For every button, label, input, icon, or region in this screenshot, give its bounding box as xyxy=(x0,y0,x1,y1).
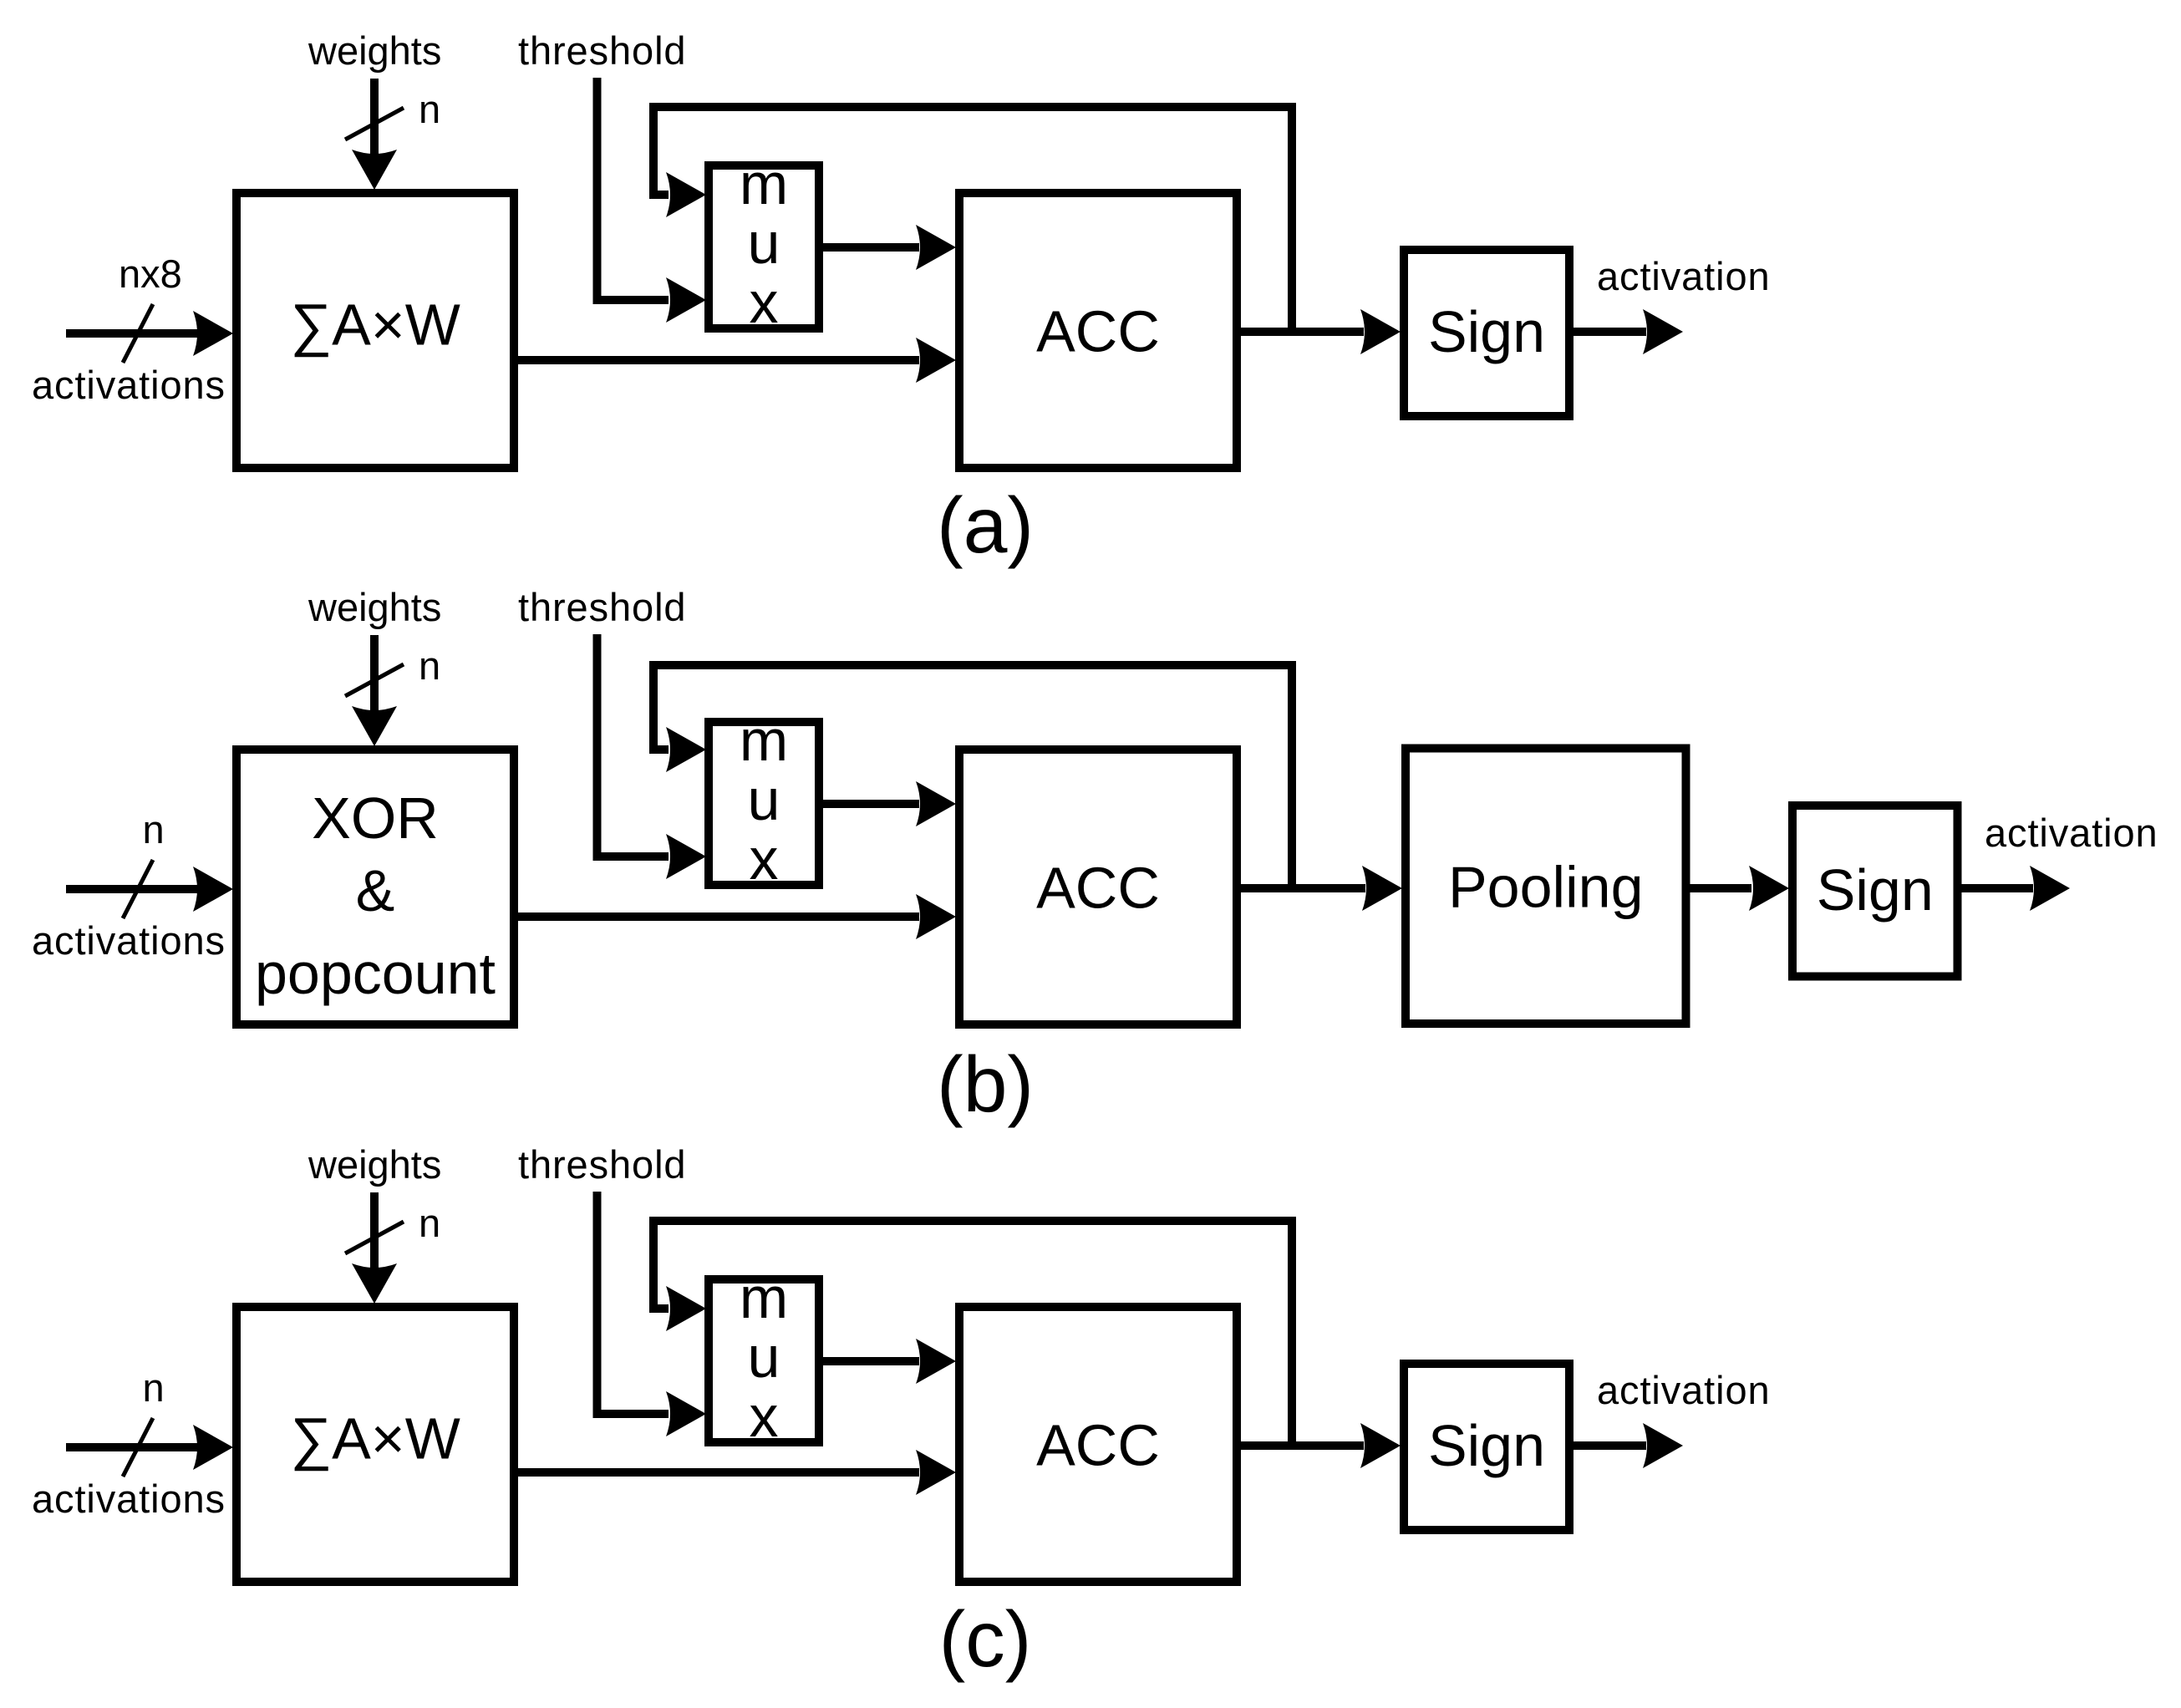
block ∑A×W (c) xyxy=(236,1307,514,1582)
svg-text:XOR: XOR xyxy=(312,785,439,851)
wire: ACC output to Sign (a) xyxy=(1241,309,1401,354)
wire: partial sums to ACC (c) xyxy=(518,1450,956,1495)
bus slash on activations wire (b) xyxy=(123,860,153,918)
block Sign (c) xyxy=(1404,1364,1569,1530)
svg-text:n: n xyxy=(419,1201,440,1245)
wire: activations input (c) xyxy=(66,1425,233,1470)
block mux (a) xyxy=(709,151,819,335)
svg-text:ACC: ACC xyxy=(1036,299,1160,364)
wire: accumulator feedback loop (c) xyxy=(653,1221,1292,1446)
svg-text:weights: weights xyxy=(308,28,441,73)
block XOR & popcount (b) xyxy=(236,750,514,1024)
svg-text:weights: weights xyxy=(308,585,441,629)
wire: threshold to mux (a) xyxy=(597,78,707,323)
svg-text:n: n xyxy=(419,87,440,131)
svg-text:m: m xyxy=(740,151,788,216)
svg-text:x: x xyxy=(750,1384,779,1449)
svg-text:(c): (c) xyxy=(939,1595,1032,1684)
svg-text:threshold: threshold xyxy=(518,28,686,73)
svg-text:activations: activations xyxy=(32,1477,226,1521)
block Sign (a) xyxy=(1404,250,1569,416)
svg-text:threshold: threshold xyxy=(518,1142,686,1187)
svg-text:u: u xyxy=(748,767,780,832)
wire: accumulator feedback loop (b) xyxy=(653,665,1292,888)
svg-text:m: m xyxy=(740,1265,788,1330)
svg-text:activation: activation xyxy=(1597,1368,1771,1412)
wire: weights input (c) xyxy=(352,1192,397,1304)
svg-text:x: x xyxy=(750,270,779,335)
svg-text:u: u xyxy=(748,211,780,276)
svg-text:&: & xyxy=(356,858,395,923)
wire: threshold to mux (b) xyxy=(597,634,707,879)
svg-text:m: m xyxy=(740,708,788,773)
block ACC (c) xyxy=(959,1307,1237,1582)
svg-text:activation: activation xyxy=(1985,811,2158,855)
block ∑A×W (a) xyxy=(236,193,514,468)
wire: partial sums to ACC (b) xyxy=(518,894,956,939)
block mux (c) xyxy=(709,1265,819,1449)
svg-text:threshold: threshold xyxy=(518,585,686,629)
wire: activation output (a) xyxy=(1573,309,1683,354)
wire: ACC output to Pooling (b) xyxy=(1241,866,1402,911)
svg-text:popcount: popcount xyxy=(255,941,496,1006)
wire: weights input (b) xyxy=(352,635,397,746)
wire: mux output to ACC (a) xyxy=(823,225,956,270)
bus slash on activations wire (a) xyxy=(123,304,153,363)
block mux (b) xyxy=(709,708,819,892)
svg-text:(a): (a) xyxy=(937,481,1034,570)
wire: Pooling output to Sign (b) xyxy=(1690,866,1790,911)
svg-text:n: n xyxy=(143,1365,165,1410)
svg-text:(b): (b) xyxy=(937,1040,1034,1129)
bus slash on weights wire (c) xyxy=(345,1222,404,1253)
wire: mux output to ACC (c) xyxy=(823,1339,956,1384)
wire: activations input (a) xyxy=(66,311,233,356)
bus slash on activations wire (c) xyxy=(123,1418,153,1477)
wire: activation output (c) xyxy=(1573,1423,1683,1468)
svg-text:n: n xyxy=(143,807,165,851)
block ACC (a) xyxy=(959,193,1237,468)
wire: activations input (b) xyxy=(66,867,233,912)
wire: mux output to ACC (b) xyxy=(823,781,956,826)
wire: activation output (b) xyxy=(1962,866,2071,911)
bus slash on weights wire (b) xyxy=(345,664,404,696)
svg-text:nx8: nx8 xyxy=(119,252,182,296)
svg-text:Sign: Sign xyxy=(1817,857,1934,923)
block Pooling (b) xyxy=(1406,749,1686,1024)
svg-text:weights: weights xyxy=(308,1142,441,1187)
svg-text:Pooling: Pooling xyxy=(1448,855,1644,920)
svg-text:activations: activations xyxy=(32,363,226,407)
svg-text:activation: activation xyxy=(1597,254,1771,298)
wire: accumulator feedback loop (a) xyxy=(653,107,1292,332)
wire: weights input (a) xyxy=(352,79,397,190)
bus slash on weights wire (a) xyxy=(345,108,404,140)
block Sign (b) xyxy=(1792,806,1958,977)
svg-text:∑A×W: ∑A×W xyxy=(290,292,460,358)
svg-text:x: x xyxy=(750,826,779,892)
wire: threshold to mux (c) xyxy=(597,1192,707,1436)
svg-text:ACC: ACC xyxy=(1036,856,1160,921)
wire: ACC output to Sign (c) xyxy=(1241,1423,1401,1468)
wire: partial sums to ACC (a) xyxy=(518,338,956,383)
svg-text:∑A×W: ∑A×W xyxy=(290,1406,460,1472)
svg-text:Sign: Sign xyxy=(1428,1413,1545,1478)
block ACC (b) xyxy=(959,750,1237,1024)
svg-text:ACC: ACC xyxy=(1036,1413,1160,1478)
svg-text:n: n xyxy=(419,643,440,688)
svg-text:activations: activations xyxy=(32,918,226,963)
svg-text:Sign: Sign xyxy=(1428,299,1545,364)
svg-text:u: u xyxy=(748,1324,780,1390)
